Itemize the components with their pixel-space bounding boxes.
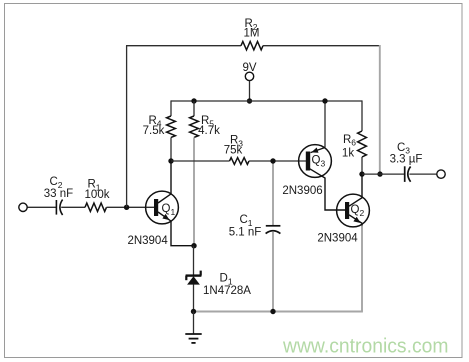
wire bottom rail [194, 311, 363, 313]
transistor Q2 [337, 174, 370, 227]
wire rail corner to R6 [361, 100, 363, 131]
junction Q3 emitter on rail [322, 98, 327, 103]
capacitor C3 [405, 166, 411, 182]
svg-text:www.cntronics.com: www.cntronics.com [282, 335, 448, 358]
svg-text:1M: 1M [244, 27, 260, 39]
wire R1 to Q1 base [107, 206, 155, 208]
svg-text:1k: 1k [342, 147, 354, 159]
transistor Q3 [299, 145, 346, 210]
wire feedback vertical [126, 46, 128, 208]
wire Q2 emitter down [361, 226, 363, 312]
wire R6 to output node [361, 157, 363, 174]
ground [185, 334, 201, 343]
junction C1 bottom [270, 309, 275, 314]
wire Q3 base [273, 160, 306, 162]
wire node to D1 [193, 246, 195, 275]
svg-text:3.3 µF: 3.3 µF [390, 153, 423, 165]
wire R2 to right corner [263, 45, 380, 47]
junction node at Q1 base [124, 205, 129, 210]
junction R3/Q3 base/C1 [270, 158, 275, 163]
wire C2 to R1 [61, 206, 85, 208]
svg-text:2N3904: 2N3904 [127, 235, 168, 247]
svg-text:75k: 75k [224, 145, 243, 157]
terminal input [19, 203, 27, 211]
wire top left to R2 [126, 45, 241, 47]
resistor R1 [85, 203, 106, 211]
resistor R4 [167, 116, 176, 137]
wire rail to R4 [170, 100, 172, 116]
wire R4 to collector node [170, 138, 172, 162]
svg-text:2N3906: 2N3906 [282, 185, 322, 197]
wire input line [27, 206, 56, 208]
svg-text:7.5k: 7.5k [143, 125, 165, 137]
wire supply rail [171, 100, 362, 102]
junction R4/Q1 collector/R3 [168, 158, 173, 163]
svg-text:9V: 9V [242, 62, 256, 74]
wire node to C1 [272, 160, 274, 226]
wire 9V to rail [249, 81, 251, 101]
wire R5 to Q1 emitter node [193, 138, 195, 246]
wire rail to Q3 emitter [324, 101, 326, 148]
svg-text:4.7k: 4.7k [198, 125, 220, 137]
terminal output [437, 170, 445, 178]
resistor R6 [358, 131, 367, 157]
wire rail to R5 [193, 101, 195, 116]
capacitor C2 [56, 200, 62, 215]
wire D1 to bottom rail [193, 284, 195, 311]
svg-text:100k: 100k [85, 189, 110, 201]
wire C1 to bottom rail [272, 231, 274, 311]
resistor R5 [190, 116, 199, 137]
junction R2/output [377, 171, 382, 176]
wire R2 down to output node [379, 45, 381, 174]
svg-text:1N4728A: 1N4728A [203, 285, 251, 297]
wire R3 to Q3 base node [249, 160, 273, 162]
svg-text:2N3904: 2N3904 [317, 232, 358, 244]
wire to ground [193, 312, 195, 335]
wire node to R3 [171, 160, 230, 162]
resistor R3 [230, 158, 249, 165]
terminal 9V [245, 72, 253, 80]
wire C3 to output terminal [409, 173, 436, 175]
svg-text:5.1 nF: 5.1 nF [229, 226, 262, 238]
junction D1/ground/bottom rail [191, 309, 196, 314]
wire output node to C3 [362, 173, 405, 175]
junction R6/Q2 collector/output [359, 171, 364, 176]
capacitor C1 [266, 226, 281, 234]
transistor Q1 [146, 162, 194, 246]
svg-text:33 nF: 33 nF [44, 188, 73, 200]
junction Q1 emitter/R5/D1 [191, 243, 196, 248]
diode D1 zener [186, 271, 202, 285]
junction 9V on rail [247, 98, 252, 103]
junction R5 top [191, 98, 196, 103]
resistor R2 [241, 42, 263, 50]
